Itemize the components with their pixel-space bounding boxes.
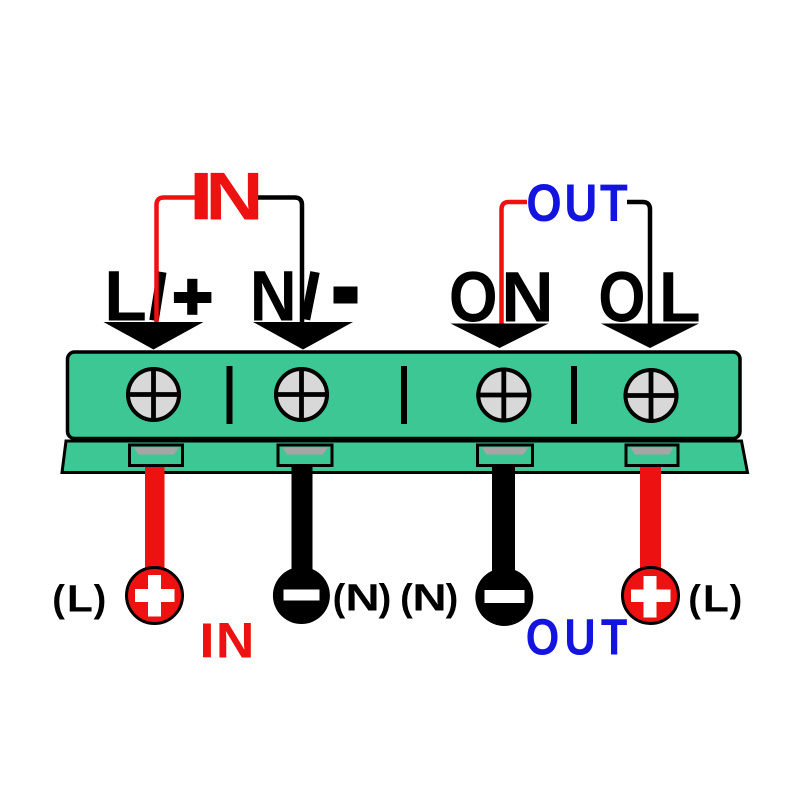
svg-text:OUT: OUT xyxy=(526,174,630,233)
svg-text:N: N xyxy=(205,157,263,233)
arrow into terminal 2 (N/-) xyxy=(253,322,353,350)
wire black from slot 2 to input minus connector xyxy=(292,460,313,572)
arrow into terminal 1 (L/+) xyxy=(104,322,204,350)
arrow into terminal 3 (ON) xyxy=(451,324,549,349)
connector plus output (L) xyxy=(623,568,679,624)
wire slot 4 xyxy=(626,445,678,466)
terminal block body xyxy=(68,352,741,439)
svg-text:): ) xyxy=(446,578,459,620)
wire red from slot 4 to output plus connector xyxy=(640,460,661,572)
terminal block lower rail xyxy=(62,441,748,473)
wire black output from terminal OL xyxy=(627,202,650,332)
label (L) output xyxy=(688,577,742,621)
svg-text:N: N xyxy=(412,577,446,619)
screw terminal 3 (ON) xyxy=(476,368,531,423)
label (L) input xyxy=(52,577,106,621)
svg-text:(: ( xyxy=(52,579,65,621)
screw terminal 1 (L/+) xyxy=(126,367,181,422)
svg-text:N: N xyxy=(345,577,379,619)
svg-text:(: ( xyxy=(688,579,701,621)
label (N) input xyxy=(333,577,392,620)
connector minus output (N) xyxy=(475,568,533,626)
svg-text:): ) xyxy=(94,579,107,621)
svg-text:): ) xyxy=(730,579,743,621)
wire red input to terminal L/+ xyxy=(157,198,197,324)
svg-text:OUT: OUT xyxy=(526,609,633,666)
terminal label N/- xyxy=(250,256,358,335)
wire red from slot 1 to input plus connector xyxy=(145,460,165,572)
svg-text:N: N xyxy=(216,612,255,668)
wire slot 1 xyxy=(130,445,183,466)
label (N) output xyxy=(400,577,458,620)
wire slot 2 xyxy=(278,445,332,466)
wire black from slot 3 to output minus connector xyxy=(492,460,515,572)
svg-text:(: ( xyxy=(400,578,413,620)
arrow into terminal 4 (OL) xyxy=(601,324,699,349)
svg-text:): ) xyxy=(379,578,392,620)
screw terminal 2 (N/-) xyxy=(274,367,329,422)
label IN (input, top) xyxy=(195,157,264,233)
connector minus input (N) xyxy=(273,567,330,624)
terminal label OL xyxy=(598,257,700,337)
wire slot 3 xyxy=(478,445,533,466)
divider bar 1 xyxy=(227,366,233,424)
divider bar 3 xyxy=(571,366,577,424)
svg-text:L: L xyxy=(67,577,93,620)
divider bar 2 xyxy=(401,366,407,424)
wire red output from terminal ON xyxy=(502,202,528,326)
wire black input to terminal N/- xyxy=(258,198,302,324)
terminal label L/+ xyxy=(104,256,211,336)
svg-text:(: ( xyxy=(333,578,346,620)
connector plus input (L) xyxy=(127,568,183,624)
label IN (bottom, input polarity) xyxy=(203,612,254,668)
screw terminal 4 (OL) xyxy=(624,368,679,423)
terminal label ON xyxy=(449,257,554,337)
svg-text:L: L xyxy=(703,577,729,620)
